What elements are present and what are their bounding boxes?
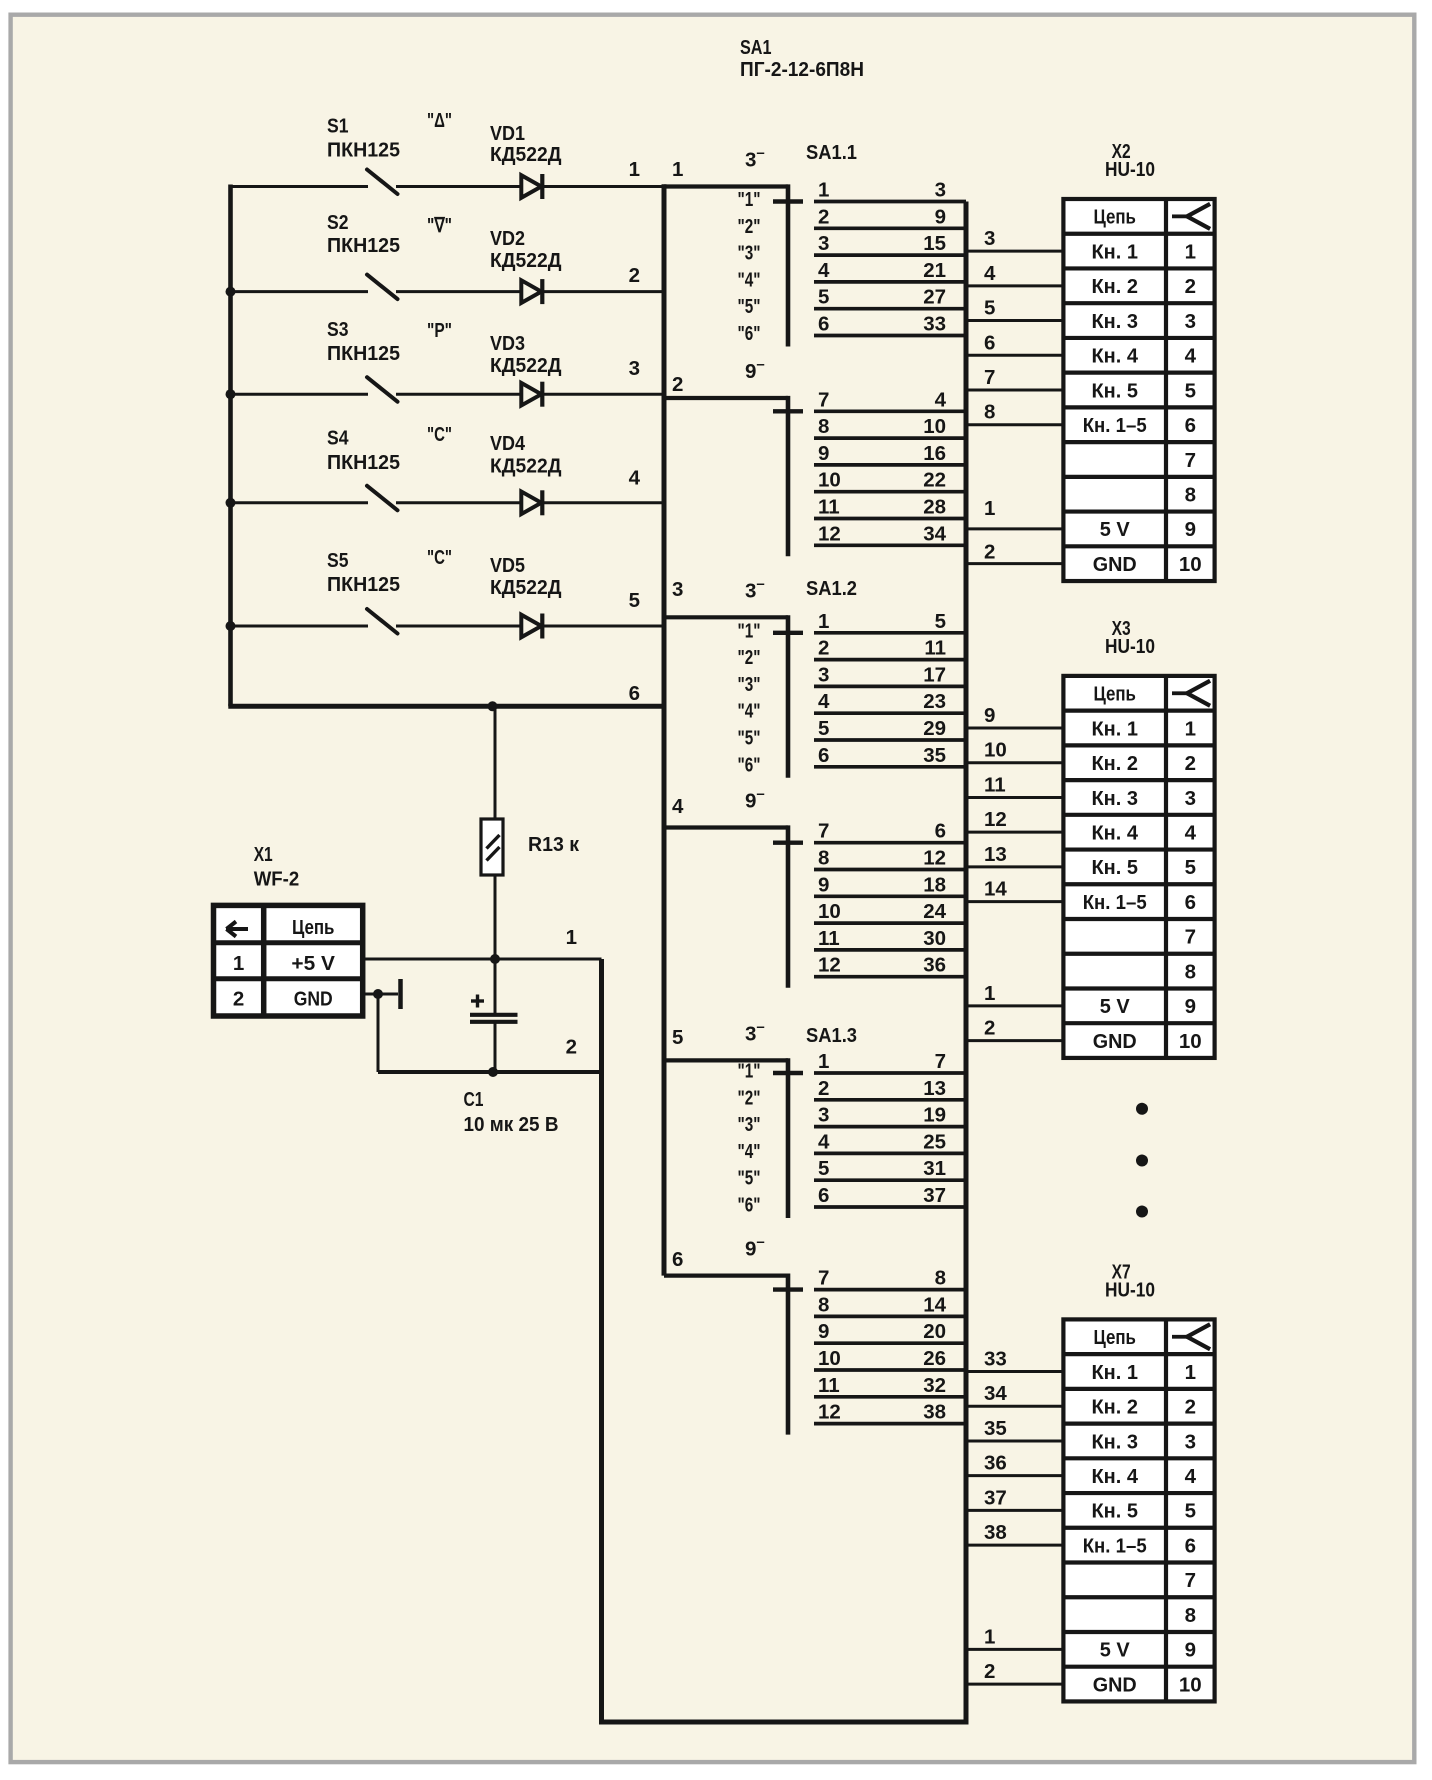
- svg-text:"2": "2": [738, 215, 761, 238]
- svg-text:"3": "3": [738, 1113, 761, 1136]
- svg-text:14: 14: [984, 878, 1007, 901]
- svg-text:Цепь: Цепь: [1093, 1326, 1136, 1349]
- svg-text:S2: S2: [327, 211, 349, 234]
- svg-text:"5": "5": [738, 727, 761, 750]
- svg-text:ПКН125: ПКН125: [327, 234, 400, 257]
- svg-text:"6": "6": [738, 322, 761, 345]
- svg-text:6: 6: [1185, 414, 1196, 437]
- svg-text:"4": "4": [738, 1140, 761, 1163]
- svg-text:4: 4: [629, 467, 641, 490]
- svg-text:19: 19: [923, 1104, 946, 1127]
- svg-text:4: 4: [818, 690, 830, 713]
- svg-text:Цепь: Цепь: [1093, 683, 1136, 706]
- svg-text:"1": "1": [738, 1060, 761, 1083]
- svg-text:5: 5: [1185, 379, 1196, 402]
- svg-text:8: 8: [818, 1293, 829, 1316]
- svg-text:8: 8: [1185, 960, 1196, 983]
- svg-text:Кн. 1–5: Кн. 1–5: [1083, 891, 1147, 914]
- svg-text:GND: GND: [1093, 553, 1137, 576]
- svg-text:4: 4: [1185, 821, 1197, 844]
- svg-text:GND: GND: [294, 988, 333, 1011]
- svg-text:6: 6: [818, 313, 829, 336]
- svg-text:31: 31: [923, 1157, 946, 1180]
- svg-text:8: 8: [935, 1267, 946, 1290]
- svg-text:28: 28: [923, 496, 946, 519]
- svg-text:WF-2: WF-2: [254, 867, 300, 890]
- svg-text:7: 7: [984, 366, 995, 389]
- svg-text:4: 4: [818, 1130, 830, 1153]
- svg-text:1: 1: [818, 1050, 829, 1073]
- svg-text:2: 2: [1185, 752, 1196, 775]
- svg-text:Кн. 1–5: Кн. 1–5: [1083, 1534, 1147, 1557]
- svg-text:22: 22: [923, 469, 946, 492]
- svg-text:1: 1: [1185, 1361, 1196, 1384]
- svg-text:16: 16: [923, 442, 946, 465]
- svg-text:SA1.3: SA1.3: [806, 1024, 857, 1047]
- svg-text:"3": "3": [738, 242, 761, 265]
- svg-text:8: 8: [818, 847, 829, 870]
- svg-text:Цепь: Цепь: [292, 916, 335, 939]
- svg-text:15: 15: [923, 232, 946, 255]
- svg-text:10: 10: [818, 900, 841, 923]
- svg-text:КД522Д: КД522Д: [490, 455, 562, 478]
- svg-text:"1": "1": [738, 188, 761, 211]
- svg-text:"4": "4": [738, 268, 761, 291]
- svg-text:17: 17: [923, 663, 946, 686]
- svg-text:33: 33: [984, 1347, 1007, 1370]
- svg-text:34: 34: [984, 1382, 1007, 1405]
- svg-text:5 V: 5 V: [1100, 518, 1130, 541]
- svg-text:4: 4: [1185, 345, 1197, 368]
- svg-text:37: 37: [984, 1486, 1007, 1509]
- svg-text:7: 7: [818, 388, 829, 411]
- svg-text:21: 21: [923, 259, 946, 282]
- svg-text:R13 к: R13 к: [528, 833, 580, 856]
- svg-text:VD5: VD5: [490, 554, 525, 577]
- svg-text:5: 5: [818, 286, 829, 309]
- svg-text:1: 1: [672, 158, 683, 181]
- svg-text:Кн. 4: Кн. 4: [1091, 821, 1138, 844]
- svg-text:X1: X1: [254, 843, 273, 866]
- svg-text:7: 7: [818, 1267, 829, 1290]
- svg-text:+5 V: +5 V: [291, 952, 335, 975]
- svg-text:5: 5: [1185, 856, 1196, 879]
- svg-text:8: 8: [1185, 1604, 1196, 1627]
- svg-text:ПГ-2-12-6П8Н: ПГ-2-12-6П8Н: [740, 58, 864, 81]
- svg-text:10 мк 25 В: 10 мк 25 В: [464, 1113, 559, 1136]
- svg-text:GND: GND: [1093, 1030, 1137, 1053]
- svg-text:34: 34: [923, 522, 946, 545]
- svg-text:Кн. 4: Кн. 4: [1091, 345, 1138, 368]
- svg-text:2: 2: [984, 1660, 995, 1683]
- svg-text:1: 1: [984, 1625, 995, 1648]
- svg-text:S3: S3: [327, 318, 349, 341]
- svg-text:ПКН125: ПКН125: [327, 342, 400, 365]
- svg-text:9: 9: [935, 205, 946, 228]
- svg-text:Кн. 2: Кн. 2: [1091, 275, 1138, 298]
- svg-text:3: 3: [984, 227, 995, 250]
- svg-text:5: 5: [818, 1157, 829, 1180]
- svg-text:5: 5: [984, 297, 995, 320]
- svg-text:"4": "4": [738, 700, 761, 723]
- svg-text:HU-10: HU-10: [1105, 635, 1155, 658]
- svg-text:27: 27: [923, 286, 946, 309]
- svg-text:6: 6: [629, 682, 640, 705]
- svg-text:2: 2: [818, 637, 829, 660]
- svg-text:7: 7: [818, 820, 829, 843]
- svg-text:VD4: VD4: [490, 432, 526, 455]
- svg-text:GND: GND: [1093, 1673, 1137, 1696]
- svg-text:1: 1: [233, 952, 244, 975]
- svg-text:"5": "5": [738, 1167, 761, 1190]
- svg-text:Кн. 1–5: Кн. 1–5: [1083, 414, 1147, 437]
- svg-text:2: 2: [984, 541, 995, 564]
- svg-text:26: 26: [923, 1347, 946, 1370]
- svg-text:12: 12: [818, 522, 841, 545]
- svg-text:"3": "3": [738, 673, 761, 696]
- svg-text:2: 2: [672, 373, 683, 396]
- svg-text:1: 1: [1185, 240, 1196, 263]
- svg-text:Кн. 3: Кн. 3: [1091, 1430, 1138, 1453]
- svg-text:13: 13: [923, 1077, 946, 1100]
- svg-text:1: 1: [1185, 717, 1196, 740]
- svg-text:Кн. 5: Кн. 5: [1091, 856, 1138, 879]
- svg-text:Кн. 5: Кн. 5: [1091, 379, 1138, 402]
- svg-text:3: 3: [1185, 310, 1196, 333]
- svg-text:4: 4: [672, 795, 684, 818]
- svg-text:6: 6: [935, 820, 946, 843]
- svg-text:9: 9: [1185, 995, 1196, 1018]
- svg-text:30: 30: [923, 927, 946, 950]
- svg-text:10: 10: [1179, 553, 1202, 576]
- svg-text:"2": "2": [738, 1086, 761, 1109]
- svg-text:2: 2: [818, 205, 829, 228]
- svg-text:35: 35: [984, 1417, 1007, 1440]
- svg-text:29: 29: [923, 717, 946, 740]
- svg-text:8: 8: [818, 415, 829, 438]
- svg-text:VD1: VD1: [490, 122, 525, 145]
- svg-text:38: 38: [984, 1521, 1007, 1544]
- svg-text:37: 37: [923, 1184, 946, 1207]
- svg-text:10: 10: [984, 739, 1007, 762]
- svg-text:6: 6: [1185, 1534, 1196, 1557]
- svg-text:11: 11: [984, 773, 1006, 796]
- svg-text:"2": "2": [738, 646, 761, 669]
- svg-text:2: 2: [1185, 1396, 1196, 1419]
- svg-text:10: 10: [1179, 1673, 1202, 1696]
- svg-text:5: 5: [672, 1026, 683, 1049]
- svg-text:3: 3: [1185, 787, 1196, 810]
- svg-text:11: 11: [818, 1374, 840, 1397]
- svg-text:7: 7: [1185, 926, 1196, 949]
- svg-text:9: 9: [818, 873, 829, 896]
- svg-text:Кн. 4: Кн. 4: [1091, 1465, 1138, 1488]
- svg-text:2: 2: [629, 264, 640, 287]
- svg-text:3: 3: [672, 578, 683, 601]
- svg-text:6: 6: [1185, 891, 1196, 914]
- svg-text:1: 1: [818, 179, 829, 202]
- svg-text:13: 13: [984, 843, 1007, 866]
- svg-text:20: 20: [923, 1320, 946, 1343]
- svg-text:7: 7: [935, 1050, 946, 1073]
- svg-text:9: 9: [1185, 518, 1196, 541]
- svg-text:C1: C1: [464, 1088, 484, 1111]
- svg-text:S5: S5: [327, 549, 349, 572]
- svg-text:9: 9: [818, 442, 829, 465]
- svg-text:"Δ": "Δ": [427, 109, 452, 132]
- svg-text:36: 36: [984, 1452, 1007, 1475]
- svg-text:3: 3: [818, 1104, 829, 1127]
- svg-text:24: 24: [923, 900, 946, 923]
- svg-text:6: 6: [818, 744, 829, 767]
- svg-text:Кн. 3: Кн. 3: [1091, 787, 1138, 810]
- svg-text:1: 1: [566, 926, 577, 949]
- svg-text:8: 8: [984, 401, 995, 424]
- svg-text:6: 6: [818, 1184, 829, 1207]
- svg-text:10: 10: [923, 415, 946, 438]
- svg-text:35: 35: [923, 744, 946, 767]
- svg-text:"6": "6": [738, 753, 761, 776]
- svg-text:"6": "6": [738, 1194, 761, 1217]
- svg-text:32: 32: [923, 1374, 946, 1397]
- svg-text:6: 6: [984, 331, 995, 354]
- svg-text:12: 12: [923, 847, 946, 870]
- svg-text:2: 2: [566, 1036, 577, 1059]
- svg-text:4: 4: [984, 262, 996, 285]
- svg-text:КД522Д: КД522Д: [490, 576, 562, 599]
- svg-text:Кн. 2: Кн. 2: [1091, 752, 1138, 775]
- svg-text:ПКН125: ПКН125: [327, 573, 400, 596]
- svg-text:18: 18: [923, 873, 946, 896]
- svg-text:"1": "1": [738, 619, 761, 642]
- svg-text:КД522Д: КД522Д: [490, 249, 562, 272]
- svg-text:VD3: VD3: [490, 332, 525, 355]
- svg-text:25: 25: [923, 1130, 946, 1153]
- svg-text:10: 10: [1179, 1030, 1202, 1053]
- svg-text:9: 9: [984, 704, 995, 727]
- svg-text:5: 5: [818, 717, 829, 740]
- svg-text:2: 2: [233, 988, 244, 1011]
- svg-text:ПКН125: ПКН125: [327, 451, 400, 474]
- svg-text:S1: S1: [327, 115, 349, 138]
- svg-text:5: 5: [1185, 1500, 1196, 1523]
- svg-text:3: 3: [1185, 1430, 1196, 1453]
- svg-text:11: 11: [818, 927, 840, 950]
- svg-text:SA1.1: SA1.1: [806, 141, 857, 164]
- svg-text:12: 12: [818, 954, 841, 977]
- svg-text:6: 6: [672, 1248, 683, 1271]
- svg-text:VD2: VD2: [490, 227, 525, 250]
- svg-text:Цепь: Цепь: [1093, 206, 1136, 229]
- svg-text:SA1.2: SA1.2: [806, 577, 857, 600]
- svg-text:HU-10: HU-10: [1105, 158, 1155, 181]
- svg-text:14: 14: [923, 1293, 946, 1316]
- svg-text:SA1: SA1: [740, 36, 772, 59]
- svg-text:38: 38: [923, 1401, 946, 1424]
- svg-text:Кн. 3: Кн. 3: [1091, 310, 1138, 333]
- svg-text:33: 33: [923, 313, 946, 336]
- svg-text:5: 5: [935, 610, 946, 633]
- svg-text:7: 7: [1185, 449, 1196, 472]
- svg-text:"С": "С": [427, 546, 452, 569]
- svg-text:8: 8: [1185, 484, 1196, 507]
- svg-text:Кн. 1: Кн. 1: [1091, 1361, 1138, 1384]
- svg-text:1: 1: [984, 497, 995, 520]
- svg-text:1: 1: [984, 982, 995, 1005]
- svg-text:"С": "С": [427, 423, 452, 446]
- svg-text:Кн. 1: Кн. 1: [1091, 717, 1138, 740]
- svg-text:1: 1: [818, 610, 829, 633]
- svg-text:23: 23: [923, 690, 946, 713]
- svg-text:10: 10: [818, 469, 841, 492]
- svg-text:7: 7: [1185, 1569, 1196, 1592]
- svg-text:5 V: 5 V: [1100, 995, 1130, 1018]
- svg-text:9: 9: [1185, 1639, 1196, 1662]
- svg-text:2: 2: [818, 1077, 829, 1100]
- svg-text:ПКН125: ПКН125: [327, 139, 400, 162]
- svg-text:9: 9: [818, 1320, 829, 1343]
- svg-text:S4: S4: [327, 427, 349, 450]
- svg-text:2: 2: [984, 1017, 995, 1040]
- svg-text:"Р": "Р": [427, 319, 452, 342]
- svg-text:11: 11: [924, 637, 946, 660]
- svg-text:4: 4: [818, 259, 830, 282]
- svg-text:"5": "5": [738, 295, 761, 318]
- svg-text:5 V: 5 V: [1100, 1639, 1130, 1662]
- svg-text:12: 12: [818, 1401, 841, 1424]
- svg-text:4: 4: [1185, 1465, 1197, 1488]
- svg-text:Кн. 2: Кн. 2: [1091, 1396, 1138, 1419]
- svg-text:Кн. 1: Кн. 1: [1091, 240, 1138, 263]
- svg-text:КД522Д: КД522Д: [490, 143, 562, 166]
- svg-text:3: 3: [629, 357, 640, 380]
- svg-text:12: 12: [984, 808, 1007, 831]
- svg-text:3: 3: [935, 179, 946, 202]
- svg-text:HU-10: HU-10: [1105, 1278, 1155, 1301]
- svg-text:36: 36: [923, 954, 946, 977]
- svg-text:11: 11: [818, 496, 840, 519]
- svg-text:Кн. 5: Кн. 5: [1091, 1500, 1138, 1523]
- svg-text:3: 3: [818, 663, 829, 686]
- svg-text:3: 3: [818, 232, 829, 255]
- svg-text:5: 5: [629, 589, 640, 612]
- svg-text:4: 4: [935, 388, 947, 411]
- svg-text:1: 1: [629, 158, 640, 181]
- svg-text:КД522Д: КД522Д: [490, 354, 562, 377]
- svg-text:"∇": "∇": [427, 214, 452, 237]
- svg-text:2: 2: [1185, 275, 1196, 298]
- svg-text:10: 10: [818, 1347, 841, 1370]
